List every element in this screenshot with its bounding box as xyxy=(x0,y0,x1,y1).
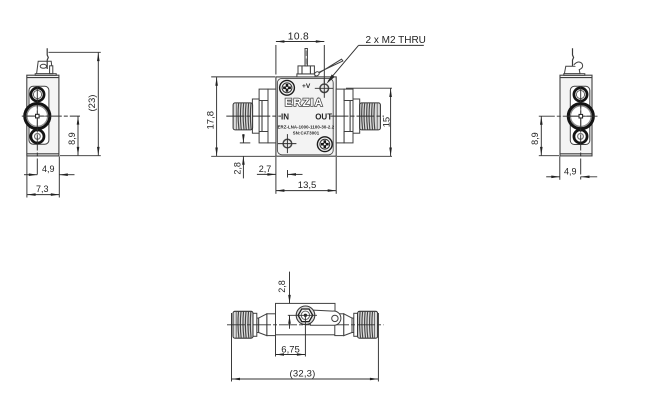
lug eyelet xyxy=(40,64,46,68)
left SMA connector xyxy=(233,89,276,143)
SMA flange plate (face-on) xyxy=(29,86,49,144)
svg-text:2,8: 2,8 xyxy=(232,162,242,175)
collar xyxy=(353,99,360,133)
top flange hole xyxy=(31,88,44,101)
leader diagonal xyxy=(328,45,358,81)
screw top-left xyxy=(280,80,295,95)
leader 2xM2 shoulder xyxy=(359,44,424,46)
svg-text:IN: IN xyxy=(281,113,289,122)
lug hook wire xyxy=(574,62,583,70)
feedthrough standoff circle xyxy=(296,306,315,325)
bottom flange hole xyxy=(574,130,587,143)
solder lug plate xyxy=(564,66,580,73)
big circle crosshair xyxy=(26,115,49,117)
center pin square (over lines) xyxy=(579,115,582,118)
svg-text:6,75: 6,75 xyxy=(281,344,300,355)
connector nut (big circle) xyxy=(568,104,593,129)
inner circle xyxy=(301,311,309,319)
svg-text:13,5: 13,5 xyxy=(298,180,317,191)
lug hole xyxy=(332,315,338,321)
svg-text:+V: +V xyxy=(302,83,311,90)
hex crosshair xyxy=(288,314,317,316)
bottom seam xyxy=(560,153,592,155)
dim 2,7 ext (hole center) xyxy=(287,170,289,178)
dim ext line bottom right xyxy=(60,155,101,157)
svg-text:4,9: 4,9 xyxy=(42,164,55,174)
collar xyxy=(253,313,257,336)
flange plate xyxy=(336,89,344,143)
solder lug plate xyxy=(37,61,53,73)
ext bottom right xyxy=(337,155,392,157)
solder lug tab xyxy=(309,310,341,325)
dim 8,9 line xyxy=(540,116,542,155)
svg-text:SN:CAT3001: SN:CAT3001 xyxy=(293,131,320,136)
svg-text:10.8: 10.8 xyxy=(288,31,309,42)
right SMA connector xyxy=(336,89,380,143)
body (chassis cross-section) xyxy=(27,75,59,156)
+V wire xyxy=(573,48,574,66)
dim 15 line xyxy=(390,89,392,157)
M2 hole top-right xyxy=(315,79,334,98)
svg-text:15: 15 xyxy=(382,117,393,128)
dim 10.8 line xyxy=(276,41,324,43)
ext bottom (long, body bottom) xyxy=(211,155,275,157)
svg-text:2,8: 2,8 xyxy=(277,280,287,293)
dim 15 ext top xyxy=(346,87,392,89)
dim 6,75 line xyxy=(276,354,306,356)
front face plate xyxy=(277,78,333,154)
top tab xyxy=(344,89,353,100)
screw bottom-right xyxy=(317,137,332,152)
groove xyxy=(257,318,259,332)
dim 10.8 ext lines xyxy=(275,45,277,75)
M2 hole bottom-left xyxy=(278,134,297,153)
groove xyxy=(352,318,354,332)
threaded nut xyxy=(233,103,253,130)
svg-text:(23): (23) xyxy=(87,95,98,112)
horizontal centerline xyxy=(22,115,80,117)
recess edge xyxy=(349,101,351,132)
flange plate xyxy=(268,89,276,143)
center pin square xyxy=(36,114,40,118)
cone xyxy=(259,314,267,336)
ext body left edge down xyxy=(275,157,277,194)
centerline xyxy=(227,324,384,326)
bottom seam xyxy=(27,153,59,155)
feedthrough hex body xyxy=(298,66,314,74)
dim 2,8 ext (flange bottom) xyxy=(240,142,251,144)
body rect xyxy=(276,303,336,334)
ext body bottom left xyxy=(539,155,559,157)
svg-text:OUT: OUT xyxy=(315,113,332,122)
leader arrowhead xyxy=(326,74,334,84)
dim (23) ext line top xyxy=(49,51,101,53)
center pin square xyxy=(579,114,583,118)
+V wire xyxy=(47,48,48,69)
dim 2,8 line with outside arrows xyxy=(242,134,244,143)
ext (32,3) left xyxy=(231,313,233,382)
threaded nut xyxy=(360,103,381,130)
lid seam xyxy=(27,77,59,79)
connector nut (big circle) xyxy=(25,104,50,129)
cone xyxy=(344,314,352,336)
dim (23) line xyxy=(97,53,99,156)
big circle crosshair xyxy=(570,115,593,117)
dim (32,3) line xyxy=(232,378,379,380)
connector centerline right xyxy=(331,115,385,117)
collar xyxy=(354,313,358,336)
svg-text:ERZIA: ERZIA xyxy=(285,97,324,109)
horizontal centerline xyxy=(539,115,598,117)
needle eyelet xyxy=(314,71,320,77)
svg-text:ERZ-LNA-1000-1100-30-2.2: ERZ-LNA-1000-1100-30-2.2 xyxy=(278,124,335,129)
dim 2,8 line with outside arrows xyxy=(289,272,291,304)
collar xyxy=(252,99,259,133)
svg-text:17,8: 17,8 xyxy=(206,111,217,130)
threaded nut xyxy=(233,311,253,338)
top tab xyxy=(259,89,268,100)
top flange hole xyxy=(574,88,587,101)
dim 8,9 line xyxy=(77,116,79,155)
dim 17,8 line xyxy=(216,77,218,156)
chassis outer rect xyxy=(276,77,336,156)
svg-text:2,7: 2,7 xyxy=(259,164,272,174)
center pin square (over lines) xyxy=(36,114,39,117)
dim 13,5 line xyxy=(276,190,336,192)
+V pin xyxy=(305,49,307,66)
ext body right edge down xyxy=(335,157,337,194)
SMA flange plate xyxy=(570,86,590,144)
lid seam xyxy=(560,77,592,79)
pin stub xyxy=(50,66,53,74)
svg-text:7,3: 7,3 xyxy=(36,184,49,194)
connector centerline left xyxy=(226,115,281,117)
threaded nut xyxy=(358,311,378,338)
recess edge xyxy=(261,101,263,132)
dim 17,8 ext top xyxy=(211,76,275,78)
bottom flange hole xyxy=(31,130,44,143)
svg-text:8,9: 8,9 xyxy=(67,132,77,145)
bottom tab xyxy=(259,132,268,143)
hex nut xyxy=(298,309,313,322)
ext body edges down xyxy=(26,157,28,198)
ext body left edge down xyxy=(275,336,277,357)
dim 4,9 tails xyxy=(24,174,37,176)
svg-text:4,9: 4,9 xyxy=(564,166,577,176)
body xyxy=(560,75,592,156)
svg-text:2 x M2 THRU: 2 x M2 THRU xyxy=(366,35,426,46)
vertical centerline xyxy=(36,87,38,177)
bottom tab xyxy=(344,132,353,143)
ext body left edge down xyxy=(559,157,561,180)
feedthrough base strip xyxy=(564,74,585,76)
feedthrough base strip xyxy=(35,74,56,76)
dim 2,7 line with outside arrows xyxy=(257,173,276,175)
dim 4,9 tails xyxy=(546,176,560,178)
ext (32,3) right xyxy=(377,313,379,382)
hex center vline down xyxy=(304,316,306,357)
loose solder pin (needle) xyxy=(315,59,343,75)
svg-text:(32,3): (32,3) xyxy=(290,369,316,380)
dim 7,3 line xyxy=(27,194,59,196)
center pin dot xyxy=(304,314,307,317)
right connector: flange xyxy=(335,314,344,336)
left connector: flange xyxy=(267,314,276,336)
feedthrough base plate xyxy=(297,74,315,77)
vertical centerline xyxy=(580,87,582,180)
svg-text:8,9: 8,9 xyxy=(530,132,540,145)
